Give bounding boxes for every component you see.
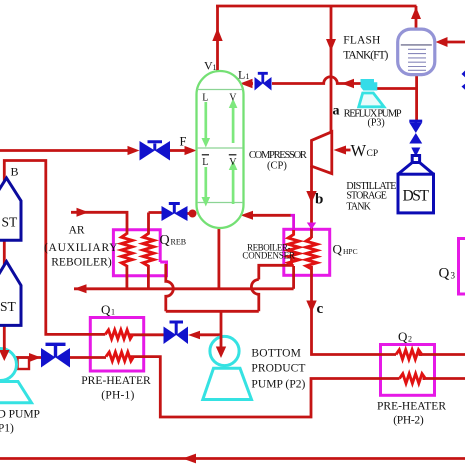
svg-text:W: W — [351, 141, 367, 160]
wire RC left coil bottom stub — [292, 266, 295, 289]
wire flash tank bottom to DST valve — [415, 74, 418, 121]
svg-text:ST: ST — [2, 215, 19, 230]
wire PH-2 line stubs inside box — [381, 355, 426, 379]
wire RC liquid riser hop — [251, 280, 258, 312]
svg-text:PRODUCT: PRODUCT — [251, 363, 305, 375]
wire P2 valve to PH-1 top pass — [130, 333, 164, 336]
wire P2 junction to valve — [200, 333, 221, 336]
heat exchanger box Q3 (cut off at right edge) — [459, 239, 465, 295]
pump P2 (bottom product pump) — [203, 336, 252, 399]
svg-text:b: b — [315, 192, 323, 208]
wire column top riser — [216, 6, 219, 72]
arrow left into compressor (WCP) — [334, 146, 347, 155]
node junction dot at column bottom (AR valve line) — [189, 210, 197, 218]
arrow left into flash tank from right feed — [436, 37, 448, 47]
wire AR steam inlet — [71, 212, 127, 234]
arrow down at node c — [306, 301, 316, 313]
column internal arrow V up — [232, 108, 235, 143]
wire RC to column return (red part) — [252, 214, 291, 217]
column (distillation column) — [197, 71, 244, 228]
svg-text:(AUXILIARY: (AUXILIARY — [44, 242, 118, 254]
arrow left into column bottom from RC return — [241, 211, 254, 220]
svg-text:B: B — [11, 165, 19, 179]
svg-text:F: F — [180, 135, 187, 149]
svg-text:PRE-HEATER: PRE-HEATER — [81, 375, 151, 387]
arrow up on column top riser — [212, 28, 222, 41]
wire flash tank top riser — [415, 6, 418, 30]
svg-text:FEED PUMP: FEED PUMP — [0, 409, 40, 421]
svg-text:BOTTOM: BOTTOM — [251, 348, 301, 360]
wire reflux line pump to L1 valve with hop over a-line — [272, 77, 361, 84]
wire AR liquid riser with hop — [166, 264, 174, 311]
wire P1 discharge loop box — [18, 358, 30, 370]
wire flash tank feed from right edge — [440, 41, 465, 44]
svg-text:HPC: HPC — [343, 247, 358, 256]
coil PH-1 top (horizontal zigzag) — [105, 330, 133, 339]
svg-text:(PH-2): (PH-2) — [393, 415, 424, 427]
coil PH-1 bottom — [106, 352, 134, 361]
svg-text:AR: AR — [69, 225, 85, 237]
coil PH-2 top — [396, 350, 422, 360]
svg-text:REB: REB — [171, 238, 187, 247]
arrow left on reflux line — [342, 79, 355, 89]
svg-text:REBOILER): REBOILER) — [51, 256, 112, 268]
svg-text:V: V — [229, 157, 237, 168]
column internal arrow Lbar down — [204, 167, 207, 197]
svg-text:(P3): (P3) — [368, 118, 385, 129]
arrow up into top header from flash tank — [411, 7, 421, 19]
heat exchanger box AR (auxiliary reboiler) with right-bottom notch — [113, 230, 166, 276]
tank BST (storage tank 1, cut off at left) — [0, 178, 21, 240]
tank DST (distillate storage tank) — [398, 156, 434, 213]
coil RC right (on b line) — [306, 238, 317, 270]
arrow right on AR steam inlet — [77, 208, 89, 217]
svg-text:Q: Q — [333, 242, 343, 257]
valve between P2 pump and PH-1 — [164, 327, 177, 345]
arrow down into P1 pump — [0, 350, 9, 361]
arrow right into column (F) — [185, 146, 197, 155]
arrow left on condensate header end — [74, 284, 87, 293]
svg-text:DST: DST — [403, 188, 430, 205]
wire PH-1 bottom pass out, down, to PH-2 bottom pass — [130, 357, 380, 417]
wire P2 pump feed drop — [220, 311, 223, 350]
svg-text:2: 2 — [408, 335, 412, 344]
arrow blue down into DST roof — [411, 148, 420, 157]
wire PH-2 bottom line out to right edge — [423, 377, 465, 380]
arrow down at node b — [306, 191, 316, 203]
column internal arrow Vbar up — [232, 170, 235, 204]
arrow right into F valve — [128, 146, 140, 155]
wire magenta RC vapor inlet jog — [291, 215, 294, 230]
wire condensate header y=288.8 with left arrow end — [74, 287, 294, 290]
pump P3 (reflux pump, filled) — [359, 80, 384, 107]
heat exchanger box PH-1 — [90, 318, 143, 372]
wire P2 feed inside pump — [220, 335, 223, 348]
svg-text:Q: Q — [398, 329, 408, 344]
svg-text:ST: ST — [0, 299, 17, 314]
svg-text:(P1): (P1) — [0, 423, 14, 435]
svg-text:Q: Q — [160, 233, 170, 248]
wire pump manifold — [166, 310, 259, 313]
wire feed F from left edge to valve — [0, 149, 128, 152]
tank FST (storage tank 2, cut off at left) — [0, 262, 21, 326]
column section lines — [197, 90, 243, 203]
wire RC liquid riser upper jog — [259, 259, 292, 280]
wire bottom recycle line — [0, 457, 465, 460]
svg-text:c: c — [317, 301, 324, 317]
arrow left into P2 valve — [188, 331, 200, 340]
valve on reflux line L1 — [255, 77, 263, 91]
svg-text:a: a — [333, 104, 340, 119]
coil AR left (vertical zigzag) — [121, 234, 132, 267]
svg-text:L: L — [202, 93, 208, 104]
column internal arrow L down — [204, 102, 207, 138]
arrow down into P2 pump — [216, 347, 226, 359]
wire compressor outlet b line down through reboiler-condenser to c corner then PH-2 top pass — [310, 166, 313, 238]
wire reflux pump suction — [372, 87, 417, 90]
svg-text:CONDENSER: CONDENSER — [242, 250, 295, 260]
heat exchanger box RC (reboiler-condenser) — [284, 229, 330, 275]
svg-text:COMPRESSOR: COMPRESSOR — [249, 150, 307, 161]
wire branch down to compressor node a — [330, 6, 333, 133]
arrow magenta tick into RC box on b line — [307, 223, 316, 230]
wire WCP stub — [345, 149, 351, 152]
arrow left on bottom recycle line — [183, 454, 197, 464]
arrow down on a branch — [326, 39, 336, 51]
svg-text:L: L — [202, 157, 208, 168]
valve cut off at right edge — [462, 68, 465, 81]
svg-text:TANK(FT): TANK(FT) — [343, 50, 388, 62]
svg-text:FLASH: FLASH — [343, 35, 380, 47]
valve above DST (vertical) — [409, 123, 422, 134]
svg-text:Q: Q — [101, 302, 111, 317]
svg-text:PRE-HEATER: PRE-HEATER — [377, 401, 446, 413]
svg-text:Q: Q — [439, 266, 450, 282]
svg-text:TANK: TANK — [346, 202, 371, 213]
heat exchanger box PH-2 — [381, 345, 435, 396]
redraw arrows over pumps — [0, 335, 226, 361]
wire AR coil bottom stubs — [127, 265, 148, 289]
wire PH-1 top pass to B loop — [4, 161, 105, 353]
svg-text:CP: CP — [367, 149, 379, 159]
svg-text:(CP): (CP) — [267, 161, 287, 172]
wire PH-2 top line out to right edge — [419, 353, 465, 356]
arrow left into column top (L1) — [240, 79, 253, 89]
svg-text:L: L — [238, 68, 245, 82]
svg-text:1: 1 — [246, 72, 250, 81]
wire AR valve branch down into AR right coil — [149, 213, 162, 235]
svg-text:PUMP (P2): PUMP (P2) — [251, 379, 305, 391]
coil RC left — [288, 229, 299, 266]
coil AR right — [143, 234, 154, 267]
wire top header line V1->FT — [216, 5, 417, 8]
wire column bottoms drop leg — [217, 227, 220, 289]
valve between P1 pump and PH-1 — [41, 348, 56, 368]
flash tank FT — [398, 29, 435, 75]
svg-text:1: 1 — [111, 308, 115, 317]
wire P1 feed inside pump — [3, 347, 6, 352]
wire P1 discharge through valve to PH-1 bottom pass — [16, 356, 106, 359]
wire F valve to column — [170, 149, 185, 152]
valve on AR line — [162, 206, 175, 221]
svg-text:V: V — [229, 93, 237, 104]
svg-text:(PH-1): (PH-1) — [101, 390, 134, 402]
svg-text:1: 1 — [213, 63, 217, 72]
arrow right into P1 valve — [29, 353, 41, 362]
wire L1 valve to column — [250, 82, 253, 85]
compressor CP (trapezoid) — [312, 132, 332, 174]
pump P1 (feed pump, cut off at left) — [0, 349, 32, 403]
wire AR valve to column bottom node — [188, 212, 197, 215]
svg-text:STORAGE: STORAGE — [346, 191, 387, 202]
coil PH-2 bottom — [400, 374, 426, 384]
valve on feed line F — [140, 141, 155, 161]
svg-text:3: 3 — [451, 271, 456, 281]
